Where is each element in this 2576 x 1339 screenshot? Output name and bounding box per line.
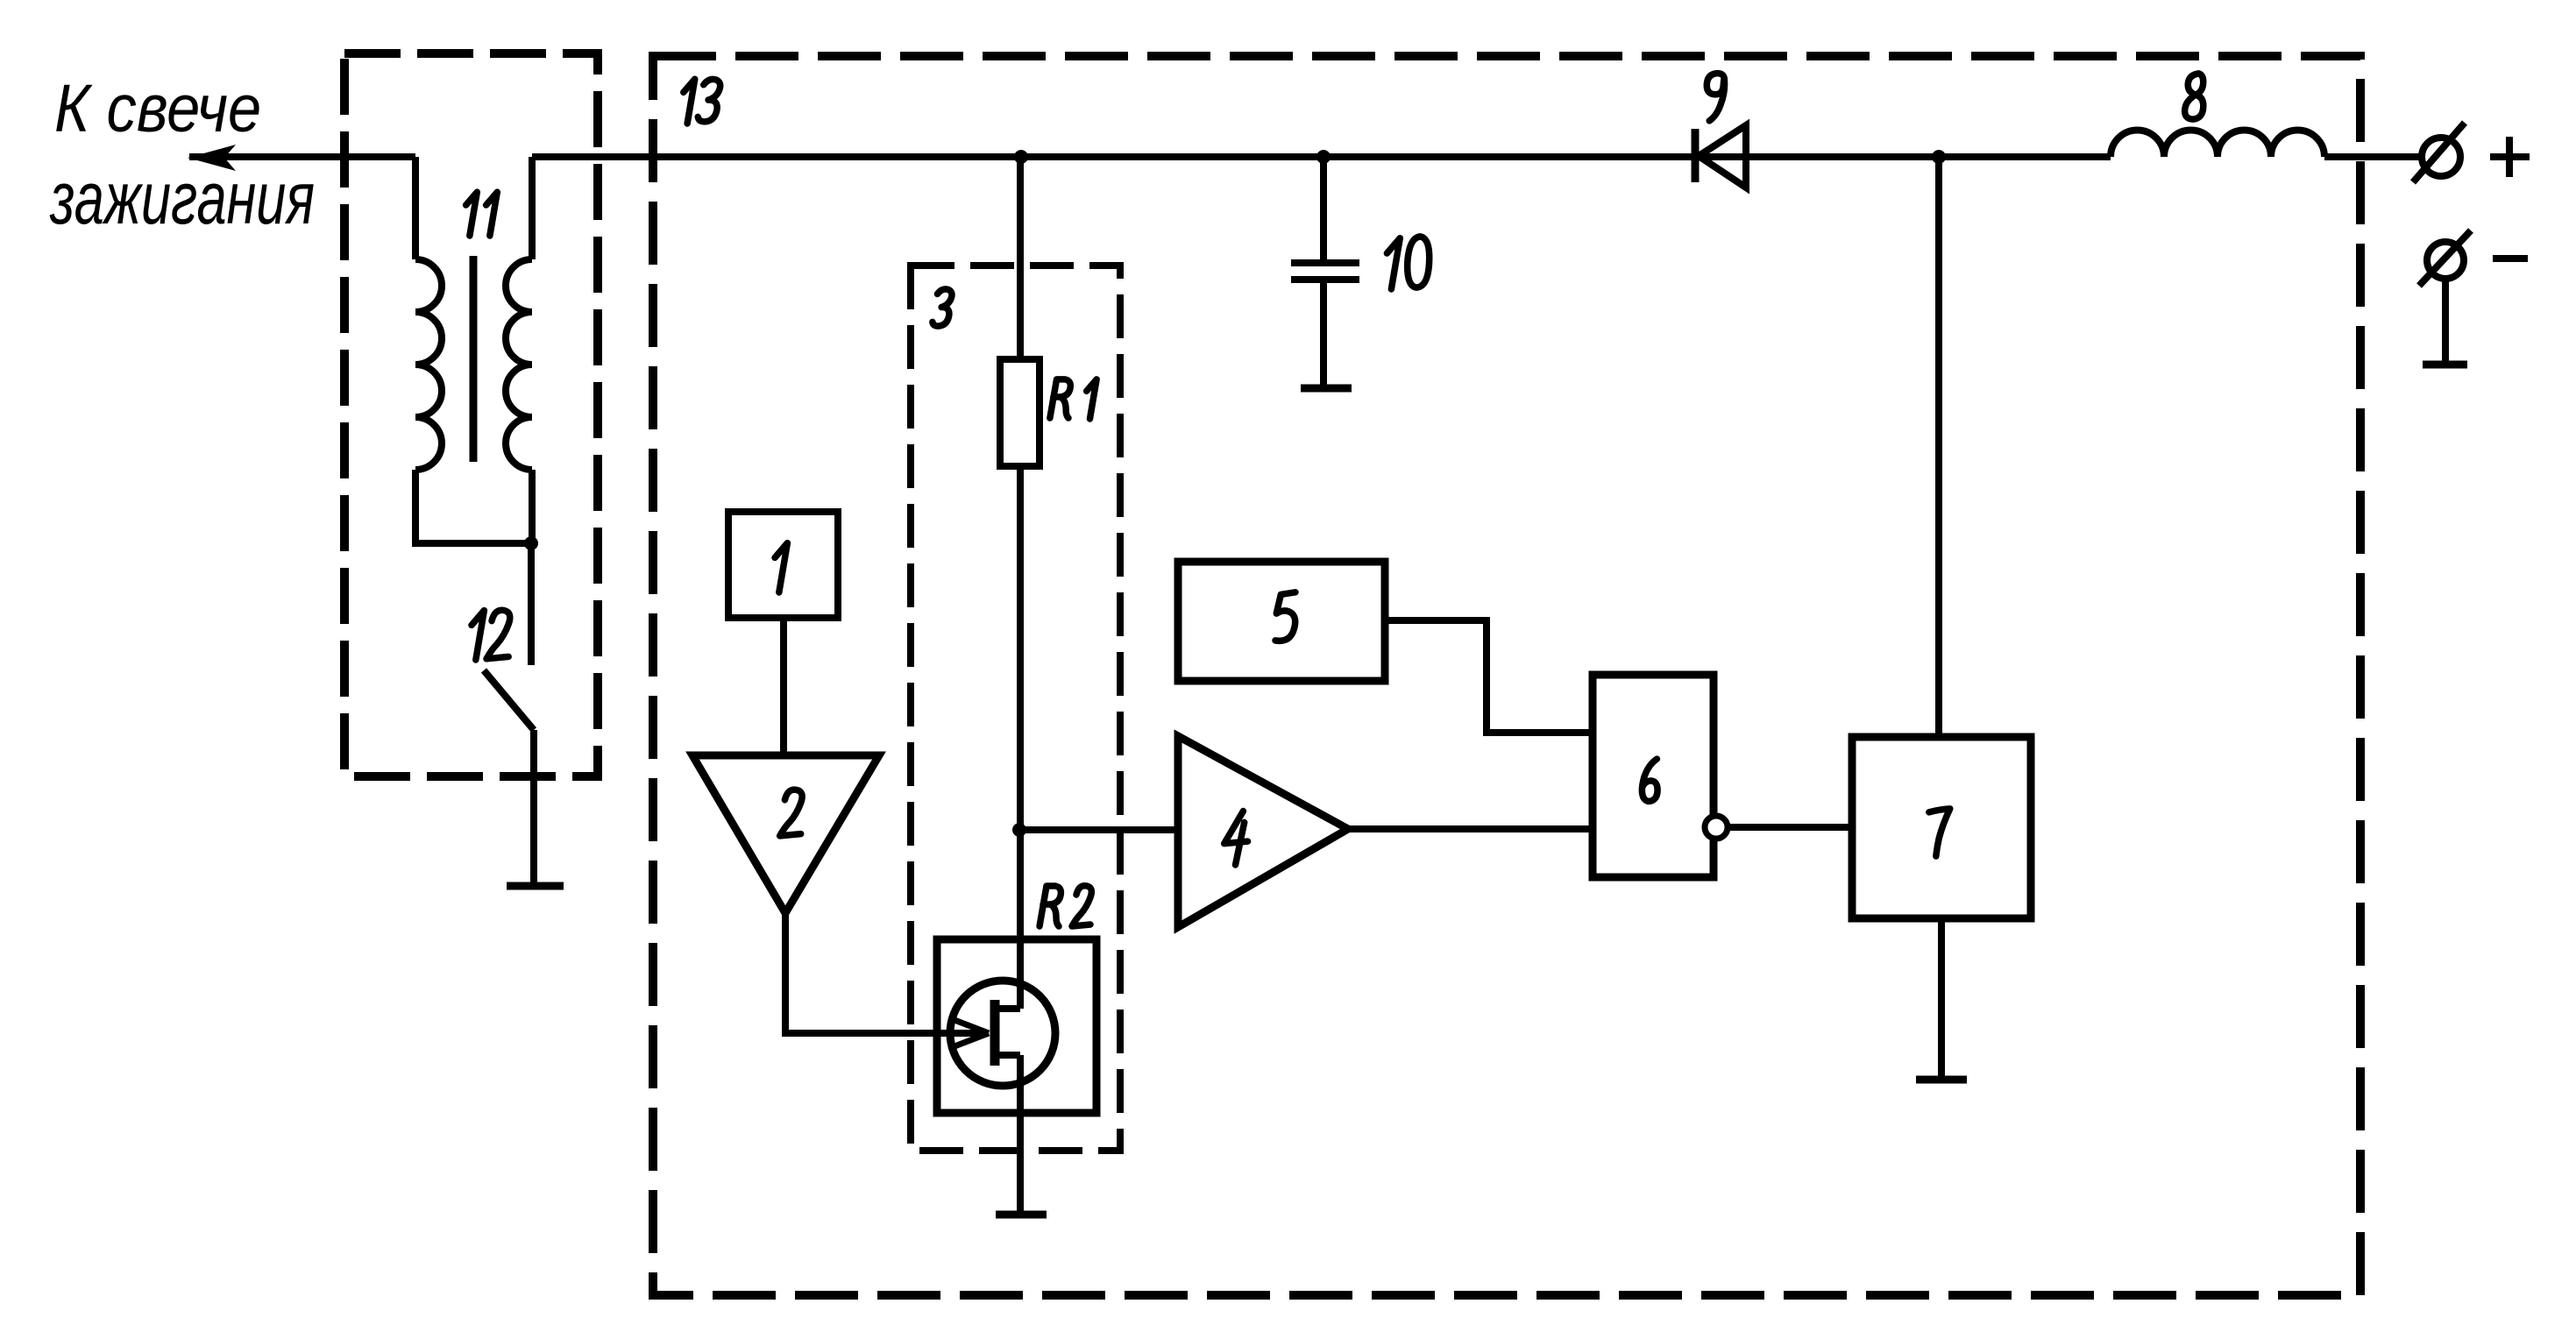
svg-text:зажигания: зажигания xyxy=(49,156,315,239)
svg-text:К свече: К свече xyxy=(54,71,261,146)
